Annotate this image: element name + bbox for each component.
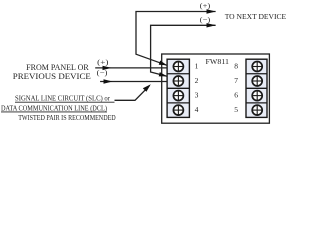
terminal screw 6 bbox=[252, 91, 262, 101]
terminal screw 4 bbox=[173, 105, 183, 115]
terminal screw 3 bbox=[173, 91, 183, 101]
svg-text:(+): (+) bbox=[200, 1, 211, 10]
wire SLC+ out: terminal 1 to next device bbox=[136, 12, 216, 66]
svg-text:(−): (−) bbox=[200, 15, 211, 24]
terminal screw 5 bbox=[252, 105, 262, 115]
arrowhead to next device (-) bbox=[207, 23, 216, 27]
svg-text:7: 7 bbox=[234, 76, 238, 85]
svg-text:4: 4 bbox=[195, 105, 199, 114]
svg-text:DATA COMMUNICATION LINE (DCL): DATA COMMUNICATION LINE (DCL) bbox=[1, 103, 107, 112]
terminal screw 1 bbox=[173, 62, 183, 72]
arrowhead from panel (+) bbox=[103, 66, 112, 70]
underline SLC bbox=[15, 101, 115, 103]
SLC annotation leader arrow bbox=[115, 86, 150, 100]
SLC leader arrowhead bbox=[143, 84, 151, 92]
wire from panel (+) bbox=[95, 67, 167, 69]
wire SLC- out: terminal 2 to next device bbox=[151, 25, 216, 76]
terminal strip TB-right body bbox=[246, 59, 267, 117]
svg-text:TO NEXT DEVICE: TO NEXT DEVICE bbox=[225, 12, 287, 21]
svg-text:SIGNAL LINE CIRCUIT (SLC) or: SIGNAL LINE CIRCUIT (SLC) or bbox=[15, 94, 110, 103]
svg-text:6: 6 bbox=[234, 91, 238, 100]
svg-text:FW811: FW811 bbox=[206, 57, 230, 66]
svg-text:TWISTED PAIR IS RECOMMENDED: TWISTED PAIR IS RECOMMENDED bbox=[18, 113, 116, 122]
terminal screw 7 bbox=[252, 76, 262, 86]
terminal screw 2 bbox=[173, 76, 183, 86]
svg-text:3: 3 bbox=[195, 91, 199, 100]
underline DCL bbox=[1, 111, 107, 113]
module block outline U1 bbox=[162, 54, 270, 123]
wire from panel (-) bbox=[100, 81, 167, 83]
svg-text:(−): (−) bbox=[97, 68, 108, 77]
svg-text:8: 8 bbox=[234, 61, 238, 70]
arrowhead into terminal 2 bbox=[159, 72, 167, 76]
svg-text:PREVIOUS DEVICE: PREVIOUS DEVICE bbox=[13, 72, 91, 81]
svg-text:5: 5 bbox=[234, 105, 238, 114]
terminal strip TB-left body bbox=[167, 59, 189, 117]
terminal screw 8 bbox=[252, 62, 262, 72]
arrowhead to next device (+) bbox=[207, 9, 216, 13]
svg-text:FROM PANEL OR: FROM PANEL OR bbox=[26, 63, 89, 72]
svg-text:(+): (+) bbox=[97, 58, 109, 67]
svg-text:2: 2 bbox=[195, 76, 199, 85]
svg-text:1: 1 bbox=[195, 61, 199, 70]
arrowhead from panel (-) bbox=[104, 79, 113, 83]
arrowhead into terminal 1 bbox=[159, 61, 167, 66]
